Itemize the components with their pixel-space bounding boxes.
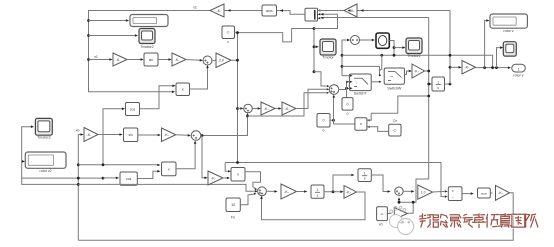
svg-text:1: 1 xyxy=(437,80,439,84)
wire productB out zigzag to sum2a xyxy=(245,172,261,189)
junction dot y55 return branch xyxy=(491,66,494,69)
wire gainT to productB xyxy=(223,177,227,179)
wire motor out down x394 xyxy=(389,41,394,56)
svg-text:-K-: -K- xyxy=(498,191,504,195)
branch display rotor v2 in xyxy=(21,160,24,162)
integrator 1/s B xyxy=(358,169,371,182)
svg-text:sin: sin xyxy=(128,133,132,137)
gain K10 xyxy=(344,186,357,199)
constant -C- v xyxy=(222,26,235,39)
wire x103 riser to cos1 xyxy=(103,109,122,165)
wire to display1 xyxy=(89,20,127,22)
wire stub SwitchT in1 from y55 net xyxy=(342,75,350,77)
display rotor v xyxy=(490,14,527,28)
acos block flipped xyxy=(262,5,277,16)
wire 10 to sum2a xyxy=(240,194,254,205)
svg-text:s: s xyxy=(317,194,319,198)
product x A xyxy=(162,162,177,176)
gain K6 xyxy=(462,61,476,75)
sum junction 2b xyxy=(395,187,403,195)
svg-text:1.0: 1.0 xyxy=(421,190,426,194)
svg-text:x1: x1 xyxy=(193,6,197,10)
wire productD in2 from Dr xyxy=(367,127,389,132)
svg-text:1: 1 xyxy=(317,188,319,192)
wire v net to scope Tmotor xyxy=(314,46,316,48)
svg-text:-K-: -K- xyxy=(116,58,122,62)
junction dot scope2 branch xyxy=(495,66,498,69)
wire y66 to SwitchW in2 xyxy=(341,65,344,68)
svg-text:-C-: -C- xyxy=(393,129,397,133)
wire y164 line to productA xyxy=(78,164,157,166)
svg-text:0: 0 xyxy=(347,112,349,116)
wire top theta bus y=10.5 with left drop x=88.5 xyxy=(89,11,211,92)
constant 0 b2 xyxy=(317,114,330,128)
wire mux to acos xyxy=(277,11,306,15)
gain x0 xyxy=(84,128,98,142)
watermark logo splat xyxy=(389,207,413,235)
scope Tmotor2 xyxy=(139,29,155,44)
constant 10 Fn xyxy=(226,198,240,212)
svg-text:>: > xyxy=(356,81,358,85)
scope2 rotor xyxy=(503,42,516,56)
svg-text:x: x xyxy=(182,87,184,92)
gain x0b xyxy=(394,208,407,220)
svg-text:1: 1 xyxy=(364,172,366,176)
svg-text:==: == xyxy=(390,75,394,78)
wire main row to out oval xyxy=(476,67,509,69)
wire sum2b to gain 1.0 xyxy=(403,190,411,192)
gain 1.0 xyxy=(418,185,433,199)
wire sin2 to gainK8 xyxy=(138,134,158,136)
switch SwitchW xyxy=(384,68,404,84)
wire y55 long feedback line xyxy=(342,55,493,67)
wire divide to acos2 xyxy=(462,193,471,195)
sin block x0 row xyxy=(124,128,138,142)
svg-text:cos: cos xyxy=(126,177,132,181)
gain K8 xyxy=(162,128,176,142)
wire -C- v down x=237.5 xyxy=(235,32,238,162)
wire sum1 to gain 2.0 xyxy=(212,59,216,61)
wire gain1.0 to divide block xyxy=(433,190,445,193)
wire 1sB out to sum2b xyxy=(371,175,387,192)
wire acos2 to gainK7 xyxy=(490,192,492,194)
sum junction 2a xyxy=(258,187,267,196)
branch arrow into sum row2 xyxy=(236,107,239,110)
wire productC out up to sum1 bottom xyxy=(190,68,208,89)
svg-text:-K-: -K- xyxy=(264,107,270,111)
svg-text:-K-: -K- xyxy=(350,9,356,13)
product x D flipped xyxy=(355,118,367,131)
sin block row1 xyxy=(144,53,158,66)
svg-text:Tmotor1: Tmotor1 xyxy=(407,54,420,58)
wire -C-x0 to gain x0b xyxy=(387,213,391,215)
svg-text:Fn: Fn xyxy=(231,216,235,220)
sum junction 3 xyxy=(351,36,360,45)
integrator 1/s A xyxy=(432,77,445,91)
svg-text:rotor v: rotor v xyxy=(503,29,513,33)
wire sum3 to motor block xyxy=(360,39,372,41)
svg-text:÷: ÷ xyxy=(452,196,454,200)
svg-text:1: 1 xyxy=(518,68,520,72)
divide block x/ xyxy=(448,187,462,201)
motor block xyxy=(376,33,389,48)
wire gainKtop to mux in1 xyxy=(318,10,345,12)
constant 0 b1 xyxy=(342,98,353,111)
svg-text:0: 0 xyxy=(347,102,349,106)
gain K top2 flipped xyxy=(344,4,357,17)
svg-text:2.0: 2.0 xyxy=(219,59,224,63)
svg-text:-C-: -C- xyxy=(226,31,230,35)
sum junction multi xyxy=(329,85,339,95)
display rotor v2 xyxy=(25,152,66,168)
gain K3 row2 xyxy=(261,102,275,115)
main feedback riser x78.3 xyxy=(78,135,80,241)
svg-text:cos: cos xyxy=(130,107,136,111)
wire 1sC out junction xyxy=(324,191,341,193)
svg-text:10: 10 xyxy=(231,203,235,207)
wire gainK9 to integratorC xyxy=(297,191,305,193)
wire productD out to riser xyxy=(334,123,355,125)
svg-text:SwitchT: SwitchT xyxy=(354,92,368,96)
wire 1sA out to x450 vertical xyxy=(445,83,451,85)
wire gainK3 to gainK4 xyxy=(275,108,279,110)
svg-text:-K-: -K- xyxy=(211,176,217,180)
wire big feedback right-bottom-left xyxy=(78,193,513,241)
scope Tmotor3 xyxy=(35,118,52,135)
cos block lower xyxy=(120,172,137,185)
wire 0 const up to SwitchT in2 xyxy=(346,82,348,98)
svg-text:0: 0 xyxy=(323,119,325,123)
svg-text:SwitchW: SwitchW xyxy=(387,86,402,90)
svg-text:x1: x1 xyxy=(94,55,98,59)
sum junction 4 xyxy=(191,131,201,141)
integrator 1/s C xyxy=(311,185,324,198)
svg-text:-K-: -K- xyxy=(164,133,170,137)
wire gainK1 to sin1 xyxy=(127,59,141,61)
switch SwitchT xyxy=(349,74,371,91)
watermark text brand xyxy=(420,214,539,229)
wire to gain row1 xyxy=(89,59,110,61)
wire productB in1 elbow xyxy=(225,163,228,172)
wire vertical x450 omega net xyxy=(449,11,451,85)
junction dot Tmotor2 branch xyxy=(87,34,90,37)
svg-text:x: x xyxy=(360,121,362,126)
wire productA out up to sum4 bottom xyxy=(176,142,195,169)
gain K7 xyxy=(496,185,510,200)
gain K9 xyxy=(281,184,297,199)
wire gain2.0 joins vertical xyxy=(231,59,238,61)
svg-text:Tmotor3: Tmotor3 xyxy=(37,136,50,140)
junction dot v net summulti branch xyxy=(313,70,316,73)
display block Display1 xyxy=(130,15,168,27)
wire v net to summulti upper-left xyxy=(314,72,326,86)
gain K2 row1 xyxy=(172,53,186,66)
branch y178 line xyxy=(22,177,103,179)
wire gainx0 to sin2 xyxy=(98,134,120,136)
scope Tmotor xyxy=(320,39,336,55)
svg-text:x: x xyxy=(237,172,239,177)
wire big vertical omega-m x428.7 xyxy=(399,18,429,203)
product x B xyxy=(231,168,245,182)
vertical x342 sum3 feed xyxy=(342,40,347,76)
wire productD in1 from omega net xyxy=(367,96,429,120)
svg-text:acos: acos xyxy=(481,191,488,195)
gain K top flipped x1 xyxy=(211,9,214,12)
wire constant v staircase net x=314 xyxy=(238,29,315,72)
scope Tmotor1 xyxy=(406,38,422,54)
wire gainK8 to sum4 xyxy=(176,134,188,137)
wire SwitchT out to SwitchW in3 xyxy=(371,81,381,83)
svg-text:s: s xyxy=(437,86,439,90)
wire SwitchW out to gainK5 xyxy=(404,71,409,75)
svg-text:0: 0 xyxy=(323,129,325,133)
branch to integrator A xyxy=(427,83,430,86)
constant -C- Dr flipped xyxy=(389,124,401,136)
wire cos1 to productC upper in xyxy=(140,86,173,109)
sum junction row2 xyxy=(244,104,253,113)
wire gainx0b up to sum2b bottom xyxy=(407,202,413,213)
junction dot v net Tmotor branch xyxy=(313,45,316,48)
wire top link to mux in3 xyxy=(321,17,429,19)
drop to SwitchW in1 xyxy=(380,54,383,57)
gain K1 row1 xyxy=(113,53,127,66)
wire y184 line to sum2a xyxy=(78,184,254,191)
wire y162 long line xyxy=(225,163,444,197)
mux block flipped xyxy=(305,8,318,21)
wire sum4 output to sum2 bottom and summulti in2 xyxy=(201,114,247,136)
wire gainK4 up riser x=308 to summulti in1 xyxy=(296,89,326,108)
junction dots big vertical xyxy=(427,70,430,73)
wire cos2 to productA in2 xyxy=(137,171,157,178)
svg-text:v: v xyxy=(227,40,229,44)
junction dot display1 branch xyxy=(87,19,90,22)
branch to scope Tmotor1 xyxy=(393,46,396,49)
svg-text:Tmotor: Tmotor xyxy=(322,55,334,59)
wire 0b2 to summulti bottom riser xyxy=(330,119,334,121)
wire summulti out to SwitchT xyxy=(339,89,347,91)
svg-text:-K-: -K- xyxy=(346,190,352,194)
wire acos1 to gain x1 xyxy=(224,10,262,12)
junction dot display2 branch xyxy=(483,66,486,69)
wire x103 down to cos2 xyxy=(102,177,105,180)
wire gainK5 joins big vertical x428.7 xyxy=(425,70,429,72)
svg-text:rotor v2: rotor v2 xyxy=(40,169,52,173)
branch mux in2 from v net xyxy=(314,14,338,28)
svg-text:-K-: -K- xyxy=(414,69,420,73)
x0 source cluster constant xyxy=(377,207,388,221)
wire branch up to integratorB xyxy=(333,175,352,192)
svg-text:-K-: -K- xyxy=(217,9,223,13)
wire left bracket xyxy=(22,127,79,185)
wire sum2 to gainK3 xyxy=(252,108,257,110)
svg-text:s: s xyxy=(364,177,366,181)
wire from x450 to gainKtop2 input xyxy=(357,10,450,12)
gain K4 row2 xyxy=(282,102,296,115)
gain T theta row xyxy=(208,171,223,185)
outport oval rotor v xyxy=(512,64,526,72)
wire feedback loop bottom xyxy=(262,192,366,220)
branch to gain K6 xyxy=(450,66,459,68)
product x C xyxy=(176,83,190,96)
sum junction row1 xyxy=(203,56,212,65)
svg-text:rotor v: rotor v xyxy=(513,74,523,78)
svg-text:-K-: -K- xyxy=(175,58,181,62)
svg-text:-C-: -C- xyxy=(380,212,384,216)
wire sum2a to gainK9 xyxy=(266,190,274,192)
svg-text:-K-: -K- xyxy=(284,190,290,194)
svg-text:Tmotor2: Tmotor2 xyxy=(140,45,153,49)
acos2 block xyxy=(478,188,491,198)
gain K5 xyxy=(412,64,425,78)
cos block upper xyxy=(126,103,140,116)
junction dot row1 branch xyxy=(87,58,90,61)
svg-text:-K-: -K- xyxy=(464,66,470,70)
svg-text:x0: x0 xyxy=(76,129,80,133)
junction dot theta branch down to gainT xyxy=(201,134,204,137)
svg-text:sin: sin xyxy=(149,58,153,62)
wire to scope Tmotor2 xyxy=(89,35,136,37)
svg-text:-K-: -K- xyxy=(285,107,291,111)
svg-text:acos: acos xyxy=(266,9,273,13)
svg-text:-K-: -K- xyxy=(87,133,93,137)
wire gainK2 to sum1 xyxy=(186,59,200,62)
wire sin1 to gainK2 xyxy=(158,59,169,61)
svg-text:x0: x0 xyxy=(379,222,383,226)
gain 2.0 row1 xyxy=(216,53,231,68)
svg-text:x: x xyxy=(168,166,170,171)
